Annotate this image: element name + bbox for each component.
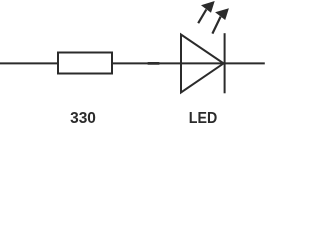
svg-text:LED: LED xyxy=(189,110,217,127)
svg-text:330: 330 xyxy=(70,110,96,127)
